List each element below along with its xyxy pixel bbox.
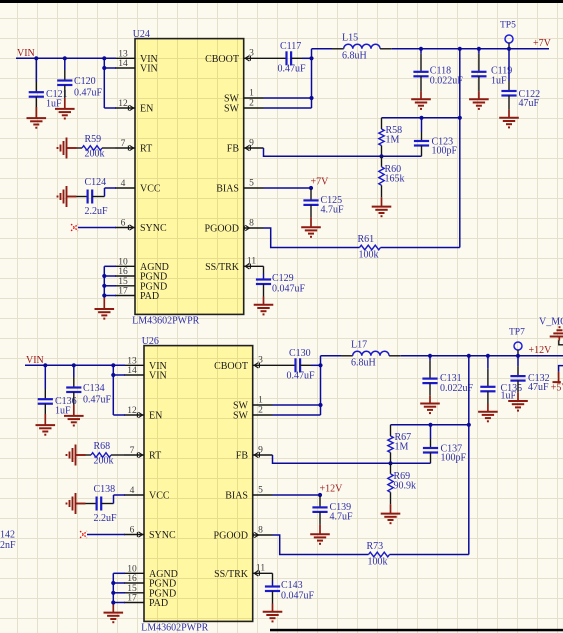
svg-text:R59: R59 bbox=[85, 134, 102, 145]
svg-text:PGOOD: PGOOD bbox=[214, 531, 248, 542]
svg-text:16: 16 bbox=[127, 574, 137, 584]
svg-text:U24: U24 bbox=[133, 29, 150, 40]
svg-text:1uF: 1uF bbox=[55, 406, 71, 417]
svg-text:C120: C120 bbox=[74, 76, 96, 87]
svg-text:SW: SW bbox=[233, 411, 249, 422]
svg-text:0.047uF: 0.047uF bbox=[272, 283, 306, 294]
svg-text:R61: R61 bbox=[358, 234, 375, 245]
svg-text:2.2uF: 2.2uF bbox=[94, 513, 118, 524]
svg-text:RT: RT bbox=[140, 144, 152, 155]
svg-text:SW: SW bbox=[224, 104, 240, 115]
svg-text:EN: EN bbox=[149, 411, 162, 422]
svg-text:+7V: +7V bbox=[311, 177, 330, 188]
svg-text:14: 14 bbox=[127, 366, 137, 376]
svg-text:200k: 200k bbox=[85, 149, 105, 160]
svg-text:PAD: PAD bbox=[140, 291, 159, 302]
svg-text:7: 7 bbox=[130, 446, 135, 456]
svg-text:L17: L17 bbox=[351, 340, 367, 351]
svg-text:VCC: VCC bbox=[140, 184, 161, 195]
svg-text:RT: RT bbox=[149, 451, 161, 462]
svg-text:10: 10 bbox=[118, 257, 128, 267]
svg-text:+5V: +5V bbox=[551, 382, 563, 393]
svg-text:47uF: 47uF bbox=[519, 98, 540, 109]
svg-text:2: 2 bbox=[258, 405, 263, 415]
svg-text:0.47uF: 0.47uF bbox=[74, 88, 103, 99]
svg-text:C130: C130 bbox=[289, 348, 311, 359]
svg-text:17: 17 bbox=[127, 594, 137, 604]
svg-text:6.8uH: 6.8uH bbox=[342, 51, 367, 62]
svg-text:PGOOD: PGOOD bbox=[205, 224, 239, 235]
svg-text:16: 16 bbox=[118, 267, 128, 277]
svg-text:VCC: VCC bbox=[149, 491, 170, 502]
svg-text:SS/TRK: SS/TRK bbox=[214, 569, 249, 580]
svg-text:5: 5 bbox=[258, 485, 263, 495]
svg-text:0.47uF: 0.47uF bbox=[287, 371, 316, 382]
svg-text:CBOOT: CBOOT bbox=[205, 54, 239, 65]
svg-text:12: 12 bbox=[127, 406, 137, 416]
svg-text:C124: C124 bbox=[85, 177, 107, 188]
svg-text:VIN: VIN bbox=[26, 355, 44, 366]
svg-text:SYNC: SYNC bbox=[140, 223, 167, 234]
svg-text:BIAS: BIAS bbox=[225, 491, 248, 502]
svg-text:LM43602PWPR: LM43602PWPR bbox=[141, 623, 209, 633]
svg-text:6: 6 bbox=[130, 526, 135, 536]
svg-text:1uF: 1uF bbox=[46, 99, 62, 110]
svg-text:C138: C138 bbox=[94, 484, 116, 495]
svg-text:100k: 100k bbox=[359, 250, 379, 261]
svg-text:15: 15 bbox=[127, 584, 137, 594]
svg-text:2.2nF: 2.2nF bbox=[0, 540, 16, 551]
svg-text:12: 12 bbox=[118, 99, 128, 109]
svg-text:+12V: +12V bbox=[529, 345, 553, 356]
svg-text:C134: C134 bbox=[83, 383, 105, 394]
svg-text:4.7uF: 4.7uF bbox=[330, 512, 354, 523]
svg-text:17: 17 bbox=[118, 287, 128, 297]
svg-text:100k: 100k bbox=[368, 557, 388, 568]
svg-text:8: 8 bbox=[258, 525, 263, 535]
svg-text:13: 13 bbox=[118, 49, 128, 59]
svg-text:1uF: 1uF bbox=[491, 76, 507, 87]
svg-text:100pF: 100pF bbox=[432, 145, 458, 156]
svg-text:U26: U26 bbox=[142, 336, 159, 347]
svg-text:5: 5 bbox=[249, 178, 254, 188]
svg-text:L15: L15 bbox=[342, 33, 358, 44]
svg-text:1: 1 bbox=[249, 88, 254, 98]
svg-text:+7V: +7V bbox=[533, 38, 552, 49]
svg-text:10: 10 bbox=[127, 564, 137, 574]
svg-text:100pF: 100pF bbox=[441, 452, 467, 463]
svg-text:TP5: TP5 bbox=[500, 21, 516, 31]
svg-text:47uF: 47uF bbox=[528, 382, 549, 393]
svg-text:C117: C117 bbox=[280, 41, 301, 52]
svg-text:11: 11 bbox=[256, 564, 265, 574]
svg-text:VIN: VIN bbox=[149, 371, 167, 382]
svg-text:90.9k: 90.9k bbox=[394, 481, 417, 492]
svg-text:SYNC: SYNC bbox=[149, 530, 176, 541]
svg-text:0.47uF: 0.47uF bbox=[83, 395, 112, 406]
svg-text:R68: R68 bbox=[94, 441, 111, 452]
svg-text:TP7: TP7 bbox=[509, 328, 525, 338]
svg-text:15: 15 bbox=[118, 277, 128, 287]
svg-text:LM43602PWPR: LM43602PWPR bbox=[132, 316, 200, 327]
svg-text:+12V: +12V bbox=[320, 484, 344, 495]
svg-text:1M: 1M bbox=[386, 135, 400, 146]
svg-text:11: 11 bbox=[247, 257, 256, 267]
svg-text:1uF: 1uF bbox=[501, 391, 517, 402]
svg-text:V_MO: V_MO bbox=[539, 316, 563, 327]
svg-text:SS/TRK: SS/TRK bbox=[205, 262, 240, 273]
svg-text:4: 4 bbox=[121, 179, 126, 189]
svg-text:FB: FB bbox=[236, 451, 249, 462]
svg-text:R73: R73 bbox=[367, 541, 384, 552]
svg-text:0.022uF: 0.022uF bbox=[430, 76, 464, 87]
svg-text:8: 8 bbox=[249, 218, 254, 228]
svg-text:13: 13 bbox=[127, 356, 137, 366]
svg-text:2: 2 bbox=[249, 98, 254, 108]
svg-text:0.47uF: 0.47uF bbox=[278, 64, 307, 75]
svg-text:BIAS: BIAS bbox=[216, 184, 239, 195]
svg-text:1: 1 bbox=[258, 395, 263, 405]
svg-text:4: 4 bbox=[130, 486, 135, 496]
svg-text:7: 7 bbox=[121, 139, 126, 149]
svg-text:14: 14 bbox=[118, 59, 128, 69]
svg-text:2.2uF: 2.2uF bbox=[85, 206, 109, 217]
svg-text:EN: EN bbox=[140, 104, 153, 115]
svg-text:VIN: VIN bbox=[140, 64, 158, 75]
svg-text:165k: 165k bbox=[385, 174, 405, 185]
svg-text:200k: 200k bbox=[94, 456, 114, 467]
svg-text:6.8uH: 6.8uH bbox=[351, 358, 376, 369]
svg-text:0.047uF: 0.047uF bbox=[281, 590, 315, 601]
svg-text:VIN: VIN bbox=[17, 48, 35, 59]
svg-text:PAD: PAD bbox=[149, 598, 168, 609]
svg-text:6: 6 bbox=[121, 219, 126, 229]
svg-text:CBOOT: CBOOT bbox=[214, 361, 248, 372]
svg-text:FB: FB bbox=[227, 144, 240, 155]
svg-text:4.7uF: 4.7uF bbox=[321, 205, 345, 216]
svg-text:1M: 1M bbox=[395, 442, 409, 453]
